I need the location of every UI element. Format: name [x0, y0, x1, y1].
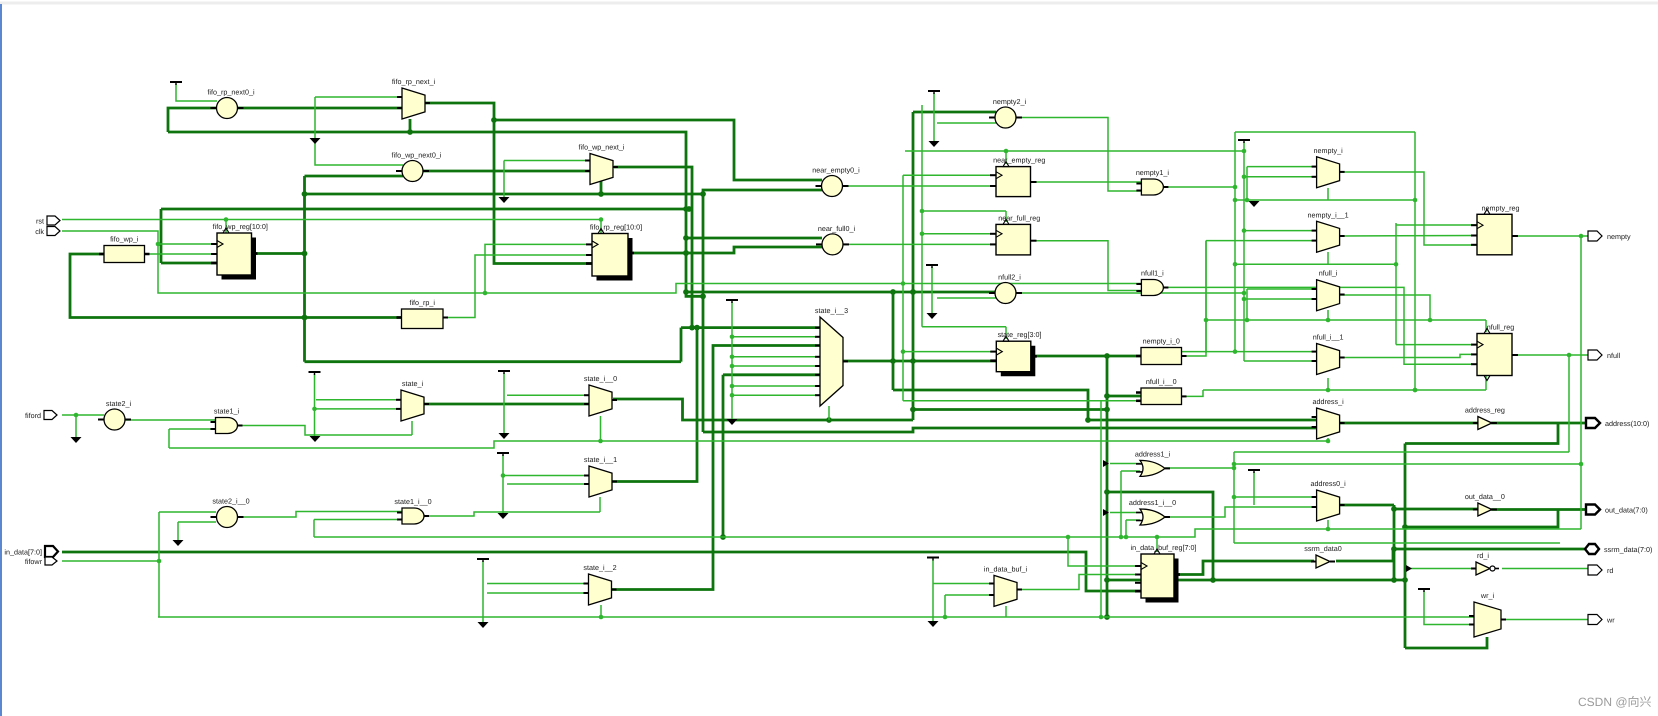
- wire bold y492: [1107, 492, 1213, 580]
- wire address_i select: [1326, 438, 1331, 443]
- port nfull: [1588, 350, 1621, 360]
- wire in_data bus: [62, 552, 1141, 591]
- svg-text:nfull_i__1: nfull_i__1: [1313, 333, 1344, 342]
- svg-text:rst: rst: [36, 216, 44, 225]
- svg-text:state_i__2: state_i__2: [583, 563, 616, 572]
- svg-text:nempty2_i: nempty2_i: [993, 97, 1027, 106]
- wire nfull_i in2: [1244, 298, 1316, 300]
- port fifowr: [25, 557, 57, 566]
- wire x1415 vertical: [1413, 132, 1418, 392]
- wire fifo_rp_next_i output: [423, 103, 592, 264]
- port address: [1586, 418, 1649, 428]
- bus tap arrow A10: [928, 621, 939, 627]
- register nfull_reg: [1471, 323, 1518, 381]
- svg-text:fifo_rp_i: fifo_rp_i: [409, 298, 435, 307]
- wire near_full0_i output: [843, 243, 996, 245]
- svg-text:near_full0_i: near_full0_i: [818, 224, 856, 233]
- wire nempty_i in1: [1247, 166, 1316, 168]
- bus tap arrow A6: [173, 540, 184, 546]
- wire address1_i in1 tap: [1110, 463, 1140, 465]
- svg-text:wr: wr: [1606, 615, 1615, 624]
- svg-text:state2_i: state2_i: [106, 399, 132, 408]
- wire nempty2 hook tap: [937, 122, 996, 124]
- wire bold y409: [913, 407, 1110, 413]
- wire nfull_i in1: [1247, 288, 1316, 290]
- wire rst to wp_reg top: [225, 220, 227, 234]
- wire x315 vertical: [315, 97, 403, 165]
- svg-text:in_data[7:0]: in_data[7:0]: [4, 547, 42, 556]
- svg-text:fifowr: fifowr: [25, 557, 43, 566]
- wire y328 line: [681, 325, 820, 331]
- wire wp_next0 in2: [305, 175, 404, 178]
- and gate nempty1_i: [1136, 168, 1170, 195]
- net stub T8: [926, 265, 938, 268]
- wire rst net: [62, 217, 603, 222]
- net stub T9: [726, 300, 738, 303]
- wire light y320: [1206, 319, 1486, 321]
- wire in_data_buf_i in1: [933, 583, 994, 585]
- wire branch to near_empty0_i: [494, 120, 822, 180]
- mux nfull_i: [1312, 269, 1345, 311]
- wire state_i__1 in2: [507, 483, 589, 485]
- svg-text:address_i: address_i: [1313, 397, 1345, 406]
- wire near_full_reg top riser: [1005, 211, 1007, 222]
- wire feedback loop left: [168, 108, 217, 132]
- wire fifo_wp_next0_i output: [422, 170, 590, 173]
- bus tap arrow A9: [478, 622, 489, 628]
- wire nempty_i in2: [1244, 176, 1316, 178]
- wire x314 riser to y537: [313, 520, 315, 538]
- wire wp_reg in3: [161, 262, 217, 265]
- wire nfull_reg top riser: [1485, 320, 1487, 332]
- wire near_empty_reg top riser: [1005, 151, 1007, 164]
- wire state1_i in2: [169, 428, 215, 430]
- svg-text:address_reg: address_reg: [1465, 406, 1505, 415]
- box fifo_rp_i: [397, 298, 449, 329]
- wire nempty_i__1 select: [1327, 252, 1329, 264]
- wire address1_i__0 in2: [1126, 519, 1140, 521]
- wire address1_i__0 output: [1165, 507, 1316, 517]
- svg-text:nempty_reg: nempty_reg: [1482, 203, 1520, 212]
- wire T483 drop: [482, 561, 484, 622]
- wire T1254 drop: [1253, 472, 1255, 505]
- svg-text:near_empty_reg: near_empty_reg: [993, 156, 1045, 165]
- svg-text:out_data__0: out_data__0: [1465, 492, 1505, 501]
- wire x1068 riser: [1068, 537, 1141, 566]
- wire state_i__1 in1: [503, 475, 589, 477]
- wire in_data_buf_i in2: [945, 594, 994, 596]
- wire nempty_reg clk: [1396, 224, 1477, 226]
- wire x1396 light vertical: [1395, 223, 1397, 345]
- svg-text:ssrm_data(7:0): ssrm_data(7:0): [1604, 545, 1652, 554]
- wire state1_i__0 in2: [314, 519, 402, 521]
- wire fifo_rp_next_i select stub: [409, 119, 412, 132]
- svg-text:state1_i: state1_i: [214, 407, 240, 416]
- net stub T3: [498, 371, 510, 374]
- wire near_empty0_i output: [841, 185, 996, 187]
- register fifo_wp_reg: [211, 222, 268, 280]
- bus tap arrow A1: [310, 138, 321, 144]
- wire nempty_i select: [1327, 188, 1329, 200]
- wire nfull1_i output: [1165, 287, 1478, 364]
- wire x1126 riser: [1125, 520, 1127, 537]
- wire x1234 vertical: [1232, 452, 1237, 543]
- box fifo_wp_i: [99, 235, 150, 263]
- wire x304 vertical: [302, 176, 308, 362]
- circuit buffer nfull2_i: [989, 273, 1022, 304]
- wire T1424 drop: [1424, 591, 1474, 625]
- register state_reg: [990, 330, 1041, 376]
- wire T933 drop: [932, 560, 934, 622]
- buffer rd_i: [1471, 551, 1499, 575]
- wire state_reg clk: [901, 349, 996, 354]
- wire nempty_i__1 in1: [1244, 230, 1316, 232]
- svg-text:nfull_i: nfull_i: [1319, 269, 1338, 278]
- wire nempty1_i output: [1165, 186, 1236, 188]
- wire address_reg output: [1491, 422, 1585, 425]
- svg-text:nfull: nfull: [1607, 351, 1621, 360]
- circuit buffer nempty2_i: [989, 97, 1026, 128]
- svg-text:state2_i__0: state2_i__0: [212, 497, 249, 506]
- wire nfull_i__1 select: [1326, 378, 1331, 392]
- wire T934 drop: [933, 93, 935, 141]
- wire riser x1247b: [1245, 289, 1250, 322]
- wire T932 drop: [931, 267, 933, 313]
- svg-text:clk: clk: [35, 227, 44, 236]
- wire bold y580: [1107, 577, 1408, 583]
- svg-text:ssrm_data0: ssrm_data0: [1304, 544, 1342, 553]
- wire state_i__2 in2: [487, 592, 588, 594]
- wire wp_reg net to near_empty0_i: [305, 190, 823, 197]
- wire light y264: [1235, 262, 1398, 267]
- svg-text:state_i__0: state_i__0: [584, 374, 617, 383]
- mux fifo_wp_next_i: [579, 143, 625, 185]
- net stub T10: [1238, 140, 1250, 143]
- wire state_i__2 in1: [487, 583, 588, 585]
- register near_empty_reg: [990, 156, 1045, 197]
- svg-text:state1_i__0: state1_i__0: [394, 497, 431, 506]
- or gate address1_i: [1135, 449, 1171, 476]
- wire address_i output: [1340, 422, 1478, 425]
- wire mux in1 tap: [315, 96, 402, 98]
- wire state bus vertical x1107: [1104, 356, 1110, 620]
- svg-text:state_i: state_i: [402, 379, 424, 388]
- wire T314 drop: [314, 374, 316, 437]
- svg-text:address0_i: address0_i: [1311, 479, 1347, 488]
- wire long y448: [169, 441, 1328, 448]
- port clk: [35, 227, 60, 236]
- port rst: [36, 216, 60, 225]
- wire nfull2 hook tap: [937, 297, 996, 299]
- wire x681 riser: [680, 328, 683, 362]
- wire y390 line: [1203, 388, 1486, 393]
- wire state2_i output: [125, 419, 215, 421]
- svg-text:state_i__3: state_i__3: [815, 306, 848, 315]
- wire nfull_i__0 input: [1107, 395, 1141, 398]
- wire nempty_i output: [1340, 172, 1477, 245]
- wire address0_i in1: [1234, 496, 1316, 498]
- wire state_i__2 output: [612, 346, 821, 590]
- wire state2_i__0 in2: [178, 521, 216, 523]
- wire clk distribution y151: [905, 149, 1244, 154]
- wire state_i__3 select line: [613, 399, 913, 423]
- bus tap arrow A1b: [310, 436, 321, 442]
- svg-text:fifo_rp_next0_i: fifo_rp_next0_i: [207, 88, 255, 97]
- register near_full_reg: [990, 213, 1040, 255]
- wire state_i__3 in2: [732, 336, 820, 338]
- net stub T4: [497, 453, 509, 456]
- circuit buffer state2_i: [98, 399, 131, 430]
- bus tap arrow A12: [1249, 201, 1260, 207]
- wire x945 riser: [944, 595, 946, 617]
- wire address bus lower: [703, 428, 1316, 432]
- buffer ssrm_data0: [1304, 544, 1342, 568]
- wire address1_i output: [1165, 466, 1236, 471]
- wire state_i__1 output: [611, 328, 697, 482]
- bus tap arrow A7: [499, 433, 510, 439]
- mux address0_i: [1311, 479, 1347, 521]
- wire y211 line: [922, 210, 1006, 212]
- wire state_i select: [411, 421, 413, 435]
- wire light y400: [903, 400, 1141, 402]
- wire y464 line: [1232, 462, 1581, 467]
- register fifo_rp_reg: [586, 223, 642, 281]
- wire fifo_rp_reg output: [630, 247, 822, 256]
- wire y361 line: [305, 360, 682, 363]
- wire fifo_wp_next_i output: [614, 167, 692, 328]
- wire in_data_buf_reg output: [1175, 561, 1314, 575]
- wire near_full0_i in1: [683, 235, 822, 241]
- port fiford: [25, 411, 57, 420]
- net stub T7: [928, 91, 940, 94]
- wire light y132: [1235, 131, 1415, 133]
- wire state_i__3 in8: [732, 394, 820, 396]
- port rd: [1588, 565, 1613, 575]
- wire near_full_reg clk: [922, 233, 996, 235]
- wire nempty_i_0 output: [1182, 241, 1207, 356]
- mux state_i__3: [815, 306, 848, 406]
- wire nempty_i__1 in2: [1206, 240, 1316, 242]
- wire nempty_reg output: [1512, 234, 1588, 239]
- wire x1206 vertical: [1204, 241, 1209, 353]
- svg-text:nempty_i_0: nempty_i_0: [1143, 337, 1180, 346]
- register in_data_buf_reg: [1131, 543, 1197, 603]
- mux nempty_i: [1312, 146, 1345, 188]
- svg-text:fifo_wp_next0_i: fifo_wp_next0_i: [392, 151, 442, 160]
- svg-text:rd: rd: [1607, 566, 1613, 575]
- wire T503b drop: [501, 455, 506, 513]
- wire vertical x703: [700, 194, 706, 432]
- svg-text:state_reg[3:0]: state_reg[3:0]: [998, 330, 1042, 339]
- wire x1569 vertical: [1568, 355, 1570, 452]
- net stub T5: [477, 559, 489, 562]
- wire state_i__2 select: [600, 605, 602, 617]
- wire state_reg top line: [922, 326, 1006, 328]
- circuit buffer fifo_wp_next0_i: [392, 151, 442, 182]
- mux state_i__2: [583, 563, 616, 605]
- wire fifo_rp_i output: [443, 255, 592, 318]
- svg-text:address(10:0): address(10:0): [1605, 419, 1649, 428]
- bus tap B1: [1103, 460, 1109, 467]
- wire nempty2_i output: [1016, 118, 1142, 192]
- wire address_reg riser: [1405, 423, 1558, 444]
- wire T176 drop: [176, 84, 217, 101]
- wire state_reg output bus: [1035, 353, 1141, 359]
- wire x505 drop: [503, 161, 505, 198]
- mux state_i__0: [584, 374, 617, 416]
- svg-text:CSDN @向兴: CSDN @向兴: [1578, 695, 1652, 709]
- port wr: [1588, 615, 1615, 625]
- buffer address_reg: [1465, 406, 1505, 430]
- wire nfull2_i output: [1016, 291, 1246, 296]
- svg-text:near_empty0_i: near_empty0_i: [812, 166, 860, 175]
- wire out_data__0 input: [1394, 508, 1478, 511]
- or gate address1_i__0: [1129, 498, 1176, 525]
- wire T1244 vertical: [1242, 142, 1247, 361]
- window top border: [0, 2, 1658, 5]
- svg-text:out_data(7:0): out_data(7:0): [1605, 505, 1648, 514]
- wire address1_i__0 in1 tap: [1110, 512, 1140, 514]
- wire fiford wire: [62, 413, 104, 418]
- wire T732 drop: [730, 302, 735, 419]
- wire state_i__1 select: [599, 497, 601, 512]
- mux nfull_i__1: [1312, 333, 1345, 375]
- wire rd_i input tap: [1408, 568, 1476, 570]
- wire state_i__0 select: [598, 416, 603, 443]
- wire state_i__3 in7: [732, 385, 820, 387]
- wire state_i output: [424, 403, 591, 406]
- wire x893 vertical: [892, 292, 895, 390]
- wire address0_i select: [1326, 520, 1331, 531]
- wire rd_i output: [1502, 568, 1588, 570]
- wire fifowr wire: [62, 559, 161, 564]
- port out_data: [1586, 505, 1648, 515]
- wire fifo_rp_next0_i output: [237, 107, 402, 110]
- circuit buffer fifo_rp_next0_i: [207, 88, 255, 119]
- svg-text:nempty: nempty: [1607, 232, 1631, 241]
- circuit buffer state2_i__0: [211, 497, 250, 528]
- svg-text:address1_i: address1_i: [1135, 449, 1171, 458]
- wire nfull_reg clk: [1396, 344, 1477, 346]
- wire state2_i__0 in1: [159, 511, 216, 513]
- svg-text:nfull_i__0: nfull_i__0: [1146, 377, 1177, 386]
- wire x1101 vertical: [1100, 401, 1102, 617]
- wire state_i__3 in6b: [723, 373, 820, 376]
- bus tap arrow A11: [727, 419, 738, 425]
- wire address0_i output: [1340, 504, 1394, 507]
- wire state1_i output: [238, 426, 412, 436]
- and gate nfull1_i: [1136, 269, 1168, 296]
- svg-text:fifo_wp_i: fifo_wp_i: [110, 235, 139, 244]
- wire wr select loop: [1405, 637, 1487, 648]
- box nempty_i_0: [1136, 337, 1187, 365]
- bus tap arrow A8: [498, 513, 509, 519]
- svg-text:nfull_reg: nfull_reg: [1487, 323, 1515, 332]
- svg-text:fifo_wp_reg[10:0]: fifo_wp_reg[10:0]: [213, 222, 268, 231]
- svg-text:fifo_wp_next_i: fifo_wp_next_i: [579, 143, 625, 152]
- wire state_i__3 in4: [732, 356, 820, 358]
- wire light y200: [1235, 199, 1415, 201]
- wire state_i in2: [312, 407, 401, 412]
- net stub T1: [170, 82, 182, 85]
- wire nfull_i__1 in1: [1182, 349, 1317, 354]
- wire nfull_i select: [1326, 310, 1331, 322]
- mux wr_i: [1469, 591, 1506, 637]
- wire y452 line: [1234, 451, 1569, 453]
- wire x922 vertical: [920, 105, 925, 327]
- wire nfull_i__1 output: [1340, 354, 1477, 357]
- wire rp branch to nfull2_i: [686, 289, 996, 295]
- wire wp_next_i in1: [504, 160, 590, 162]
- buffer out_data__0: [1465, 492, 1505, 516]
- wire x169 riser: [168, 429, 170, 448]
- wire out_data__0 output: [1491, 508, 1585, 511]
- wire fifo_wp_next_i select: [600, 181, 603, 194]
- wire clk net: [62, 231, 1141, 295]
- wire state_i__3 in5: [732, 365, 820, 367]
- wire fiford arrow drop: [75, 415, 77, 437]
- register nempty_reg: [1471, 203, 1519, 255]
- wire x1396 vertical: [1391, 505, 1397, 583]
- mux state_i: [396, 379, 429, 421]
- svg-text:wr_i: wr_i: [1480, 591, 1495, 600]
- mux nempty_i__1: [1308, 210, 1349, 252]
- svg-text:nempty_i__1: nempty_i__1: [1308, 210, 1349, 219]
- bus tap B2: [1103, 509, 1109, 516]
- wire state_i in1: [316, 399, 401, 401]
- wire nfull_i__0 output: [1182, 390, 1204, 396]
- svg-text:fiford: fiford: [25, 411, 41, 420]
- wire fifo_wp_i output: [145, 253, 218, 255]
- svg-text:fifo_rp_next_i: fifo_rp_next_i: [392, 77, 436, 86]
- bus tap arrow A2: [499, 197, 510, 203]
- net stub T12: [1418, 589, 1430, 592]
- wire in_data_buf_i output: [1017, 575, 1141, 590]
- wire state2_i__0 output: [238, 512, 402, 518]
- bus tap arrow A5: [71, 437, 82, 443]
- net stub T11: [1248, 470, 1260, 473]
- wire x161 vertical: [160, 209, 163, 263]
- svg-text:in_data_buf_reg[7:0]: in_data_buf_reg[7:0]: [1131, 543, 1197, 552]
- wire bold bus y209: [161, 206, 692, 212]
- svg-text:nempty_i: nempty_i: [1314, 146, 1344, 155]
- svg-text:nfull1_i: nfull1_i: [1141, 269, 1164, 278]
- wire net y132 rp feedback: [168, 129, 703, 296]
- wire x178 drop: [177, 522, 179, 540]
- and gate state1_i: [211, 407, 243, 434]
- bus tap arrow A3: [929, 141, 940, 147]
- wire address bus upper: [893, 390, 1316, 423]
- bus tap B3: [1406, 565, 1412, 572]
- mux address_i: [1312, 397, 1345, 439]
- wire rst to rp_reg top: [600, 220, 602, 234]
- wire riser x1247a: [1245, 167, 1250, 203]
- wire clk riser rp_reg: [485, 244, 592, 293]
- svg-text:in_data_buf_i: in_data_buf_i: [984, 564, 1028, 573]
- and gate state1_i__0: [394, 497, 431, 524]
- port in_data: [4, 546, 58, 557]
- wire state_i__3 output: [843, 358, 996, 364]
- wire state_reg top riser: [1005, 327, 1007, 339]
- wire state_i__0 in1: [507, 394, 589, 396]
- wire fifo_wp_reg output: [252, 251, 308, 257]
- mux fifo_rp_next_i: [392, 77, 436, 119]
- net stub T2: [309, 372, 321, 375]
- wire nfull_reg bottom riser: [1485, 375, 1487, 390]
- svg-text:state_i__1: state_i__1: [584, 455, 617, 464]
- wire x1235 vertical: [1233, 132, 1238, 352]
- wire address1_i in2: [1121, 470, 1140, 472]
